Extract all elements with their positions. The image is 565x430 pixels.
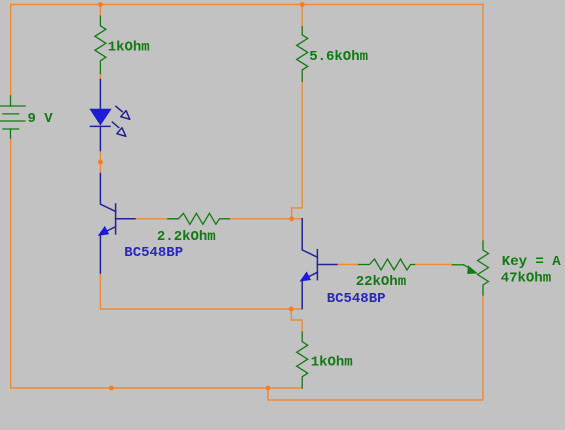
wire 5.6k to Q2 collector jog [292, 81, 303, 218]
wire right rail upper (to pot top) [482, 5, 484, 242]
LED D1 anode lead [99, 80, 101, 110]
wire left rail upper (battery top) [10, 5, 12, 97]
junction dot Q2 collector node [289, 216, 294, 221]
wire 22k to pot wiper [415, 264, 453, 266]
LED D1 cathode bar [91, 125, 111, 127]
wire left rail lower (battery bottom to ground rail) [10, 138, 12, 388]
junction dot LED cathode net [98, 160, 103, 165]
svg-text:5.6kOhm: 5.6kOhm [309, 49, 368, 65]
potentiometer wiper arrow [453, 264, 464, 266]
wire LED to Q1 collector [99, 151, 101, 174]
wire bottom rail [11, 387, 303, 389]
transistor Q1 base lead [116, 218, 135, 220]
transistor Q1 base bar [115, 204, 117, 234]
transistor Q2 emitter [302, 272, 317, 308]
transistor Q1 emitter arrowhead [99, 227, 109, 235]
transistor Q2 base bar [316, 250, 318, 280]
LED D1 triangle [90, 109, 110, 124]
transistor Q1 emitter [100, 227, 115, 273]
resistor 2.2kOhm (horizontal) [168, 213, 230, 224]
LED emission arrow 1 shaft [115, 106, 123, 112]
wire R1 to LED [99, 74, 101, 80]
junction dot top-left [98, 2, 103, 7]
potentiometer 47kOhm body [478, 241, 489, 295]
wire top rail [11, 4, 483, 6]
wire Q2 base to 22k [337, 264, 359, 266]
LED D1 cathode lead [99, 126, 101, 150]
wire step to bottom 1k resistor [291, 309, 302, 332]
wire node to Q2 collector [292, 218, 303, 220]
svg-text:Key = A: Key = A [502, 254, 561, 270]
svg-text:9 V: 9 V [28, 111, 54, 127]
svg-text:BC548BP: BC548BP [327, 291, 386, 307]
wire Q1 base to 2.2k [135, 218, 168, 220]
wire 5.6k top feed [301, 5, 303, 27]
battery V1 plates [10, 96, 12, 106]
transistor Q2 emitter arrowhead [301, 273, 311, 281]
resistor 5.6kOhm [297, 27, 308, 82]
LED emission arrow 2 shaft [112, 122, 120, 128]
resistor 1kOhm (bottom) [297, 332, 308, 388]
wire Q1 emitter down and mid rail [100, 273, 302, 309]
svg-text:BC548BP: BC548BP [124, 245, 183, 261]
potentiometer wiper arrowhead [467, 265, 478, 274]
svg-text:2.2kOhm: 2.2kOhm [157, 229, 216, 245]
transistor Q1 collector lead [100, 174, 115, 212]
junction dot top-mid [300, 2, 305, 7]
wire R1 top feed [99, 5, 101, 17]
LED emission arrow 2 head [117, 128, 126, 137]
transistor Q2 collector lead [302, 219, 317, 257]
svg-text:47kOhm: 47kOhm [501, 271, 551, 287]
resistor 22kOhm (horizontal) [359, 259, 415, 270]
wire bottom-right return [268, 295, 483, 400]
svg-text:1kOhm: 1kOhm [108, 40, 150, 56]
junction dot bottom rail right [266, 386, 271, 391]
svg-text:22kOhm: 22kOhm [356, 274, 406, 290]
junction dot emitter rail node [289, 307, 294, 312]
transistor Q2 base lead [317, 264, 337, 266]
junction dot bottom rail left [109, 386, 114, 391]
LED emission arrow 1 head [121, 111, 130, 120]
wire 2.2k to node [229, 218, 291, 220]
svg-text:1kOhm: 1kOhm [311, 355, 353, 371]
resistor R1 1kOhm (top left) [95, 16, 106, 73]
